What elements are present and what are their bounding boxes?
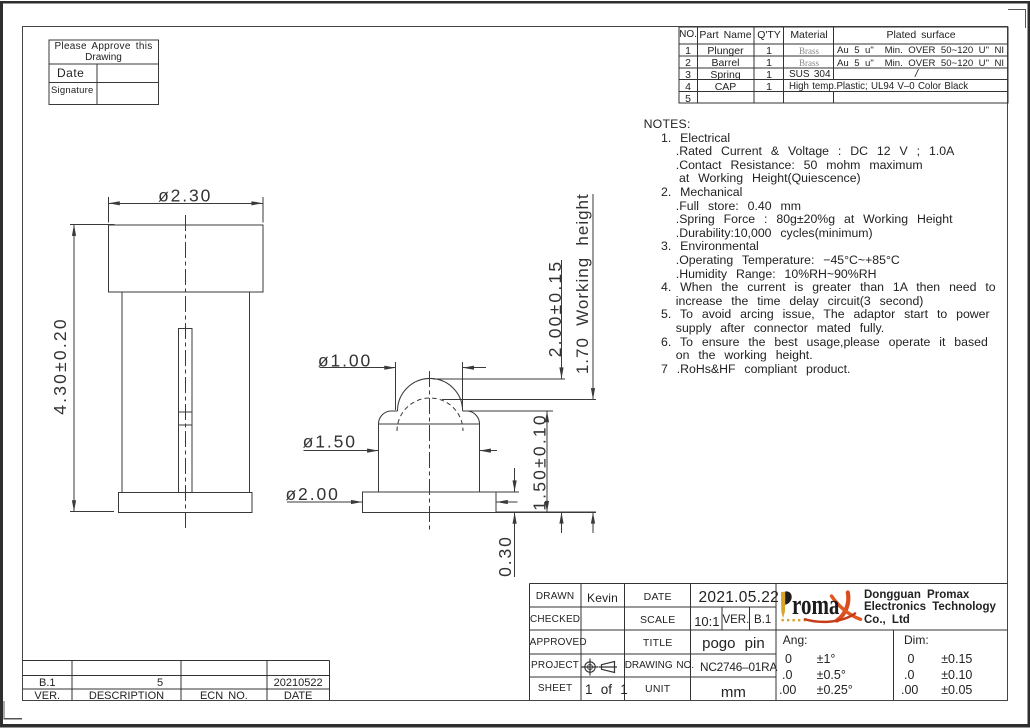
body seam line	[379, 423, 480, 425]
svg-text:ø1.50: ø1.50	[303, 432, 357, 452]
title block text	[530, 592, 581, 602]
fold mark bottom-left	[4, 701, 22, 719]
flange top extension	[496, 491, 519, 493]
svg-text:1.50±0.10: 1.50±0.10	[530, 413, 550, 511]
dimension ø2.00	[287, 501, 518, 503]
body top plateau left	[391, 410, 398, 412]
center line left view	[185, 215, 187, 531]
body top plateau right + 1.50 reference line	[463, 410, 553, 412]
company name	[864, 590, 969, 602]
approve box	[49, 40, 159, 105]
logo P bowl	[785, 591, 792, 604]
dimension ø2.30	[108, 197, 262, 223]
logo P golden stem	[781, 592, 785, 618]
svg-text:ø1.00: ø1.00	[318, 350, 372, 370]
approve box text	[49, 42, 158, 52]
plunger dome arc	[398, 378, 463, 411]
dimension 1.70 working height	[592, 194, 594, 533]
dimension 2.00±0.15	[561, 260, 563, 533]
center line right view	[429, 371, 431, 531]
dimension ø1.00	[320, 362, 487, 410]
dimension 0.30	[514, 468, 516, 577]
parts table	[679, 27, 1008, 103]
projection symbol	[582, 659, 618, 676]
barrel left side	[121, 292, 123, 493]
body left side	[378, 424, 380, 492]
barrel right side	[248, 292, 250, 493]
working height reference line	[442, 399, 596, 401]
tolerance table	[783, 634, 808, 646]
logo swoosh	[805, 593, 861, 622]
dimension 4.30±0.20	[70, 225, 114, 512]
title block	[530, 584, 1008, 701]
body shoulder left arc	[378, 411, 390, 424]
pin needle	[178, 328, 192, 492]
svg-text:0.30: 0.30	[495, 535, 515, 577]
parts table text	[679, 30, 697, 40]
svg-text:4.30±0.20: 4.30±0.20	[50, 317, 70, 415]
notes text	[644, 118, 691, 130]
logo dots	[782, 619, 806, 621]
svg-text:2.00±0.15: 2.00±0.15	[545, 260, 565, 358]
body right side	[479, 424, 481, 492]
svg-text:1.70 Working height: 1.70 Working height	[573, 193, 592, 374]
dome top reference line	[433, 378, 565, 380]
logo text roma	[792, 592, 839, 620]
revision table	[23, 661, 330, 701]
body shoulder right arc	[468, 411, 480, 424]
flange right view	[362, 492, 496, 513]
cap outline	[108, 225, 262, 292]
svg-text:ø2.00: ø2.00	[285, 484, 339, 504]
promax logo	[781, 591, 861, 621]
hidden dome arc (working position)	[397, 398, 463, 431]
dimension labels	[50, 186, 592, 577]
pin joint line 1	[178, 411, 192, 413]
fold mark top-right	[1008, 10, 1026, 29]
pin joint line 2	[178, 424, 192, 426]
flange left view	[118, 493, 252, 513]
dimension 1.50±0.10	[546, 411, 548, 512]
datum base line	[496, 511, 596, 513]
svg-text:ø2.30: ø2.30	[158, 186, 212, 206]
dimension ø1.50	[303, 450, 496, 452]
revision table text	[23, 678, 73, 689]
